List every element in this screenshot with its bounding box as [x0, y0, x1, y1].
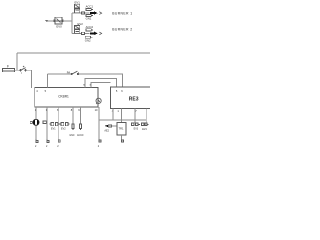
svg-text:EV4: EV4: [142, 128, 147, 131]
svg-text:GN2: GN2: [85, 38, 91, 42]
svg-text:CKBR1: CKBR1: [58, 95, 69, 99]
terminal tick row1: [81, 12, 84, 14]
svg-text:8: 8: [71, 108, 73, 112]
svg-text:9: 9: [78, 108, 80, 112]
svg-text:7: 7: [135, 109, 137, 113]
connector ACC2: [86, 25, 94, 31]
fuse F: [3, 65, 15, 72]
electrovalve EV1: [75, 1, 81, 13]
wire EV0 stub arrow: [45, 20, 54, 22]
svg-text:3: 3: [46, 108, 48, 112]
svg-text:EV0: EV0: [56, 25, 62, 29]
wire switch to drop: [26, 70, 31, 88]
wire bus vertical: [71, 13, 73, 33]
svg-text:BURNER 2: BURNER 2: [112, 28, 132, 32]
IC CKBR1: [35, 88, 98, 108]
wire drop pin8: [57, 107, 59, 139]
wire RE3 pin4 drop: [112, 109, 114, 120]
igniter arrow burner2: [90, 32, 102, 36]
connector ACC1: [86, 4, 94, 10]
wire line B: [85, 79, 117, 88]
wire fuse to node: [15, 69, 20, 71]
svg-text:10: 10: [95, 108, 98, 112]
wire rail top: [17, 52, 150, 54]
wire bottom bus: [99, 119, 146, 121]
wire burner2 row: [72, 32, 90, 34]
svg-text:GN1: GN1: [86, 17, 92, 21]
svg-text:ACC2: ACC2: [86, 25, 94, 29]
svg-text:2: 2: [35, 145, 37, 148]
svg-text:AE2: AE2: [104, 129, 109, 132]
terminal 3: [46, 140, 49, 149]
lamp neon at IC right: [96, 98, 101, 104]
svg-text:5: 5: [116, 89, 118, 93]
svg-text:1: 1: [35, 108, 37, 112]
connector GN1: [86, 15, 93, 21]
svg-text:8: 8: [57, 108, 59, 112]
wire EV0 to bus: [63, 20, 72, 22]
wire lamp drop pin1: [35, 107, 37, 139]
wire RE3 pin7 drop: [134, 109, 136, 123]
svg-text:ACC1: ACC1: [86, 4, 94, 8]
connector ACC0: [77, 124, 84, 137]
electrovalve EV0: [54, 17, 63, 28]
electrovalve EV2: [75, 22, 84, 33]
svg-text:5: 5: [45, 89, 47, 93]
svg-text:EV2: EV2: [61, 127, 66, 130]
wire drop pin3: [46, 107, 48, 139]
terminal 1: [35, 140, 38, 149]
wire RE3 pin1 drop to TR: [120, 109, 122, 123]
svg-text:TR1: TR1: [119, 127, 124, 131]
svg-text:EV3: EV3: [134, 128, 139, 131]
switch PA: [67, 70, 79, 75]
svg-text:2: 2: [57, 145, 59, 148]
connector EV3: [131, 123, 139, 131]
svg-text:1: 1: [117, 109, 119, 113]
igniter arrow burner1: [90, 11, 102, 15]
wire line A vertical: [47, 74, 49, 88]
connector GN2: [85, 36, 93, 42]
terminal TR1: [121, 140, 123, 142]
lamp SP: [30, 119, 46, 125]
terminal 10: [98, 140, 101, 149]
wire line A left: [48, 73, 72, 75]
connector right: [142, 123, 149, 131]
wire drop GN0: [72, 107, 74, 124]
connector EV1 out: [49, 122, 59, 130]
svg-text:F: F: [7, 65, 9, 69]
terminal 8: [57, 140, 60, 149]
connector EV2 out: [60, 122, 70, 130]
svg-text:EV1: EV1: [51, 127, 56, 130]
svg-text:GN0: GN0: [69, 134, 75, 137]
wire drop pin10 long: [98, 107, 100, 139]
connector arrow AE: [104, 125, 117, 133]
svg-text:4: 4: [36, 89, 38, 93]
wire drop ACC0: [79, 107, 81, 124]
wire line C: [91, 82, 111, 87]
relay RE3: [111, 87, 152, 109]
transformer TR1: [117, 122, 126, 134]
svg-text:BURNER 1: BURNER 1: [112, 12, 132, 16]
svg-text:2: 2: [98, 145, 100, 148]
wire burner1 row: [72, 12, 90, 14]
svg-text:2: 2: [46, 145, 48, 148]
wire TR1 bottom: [120, 135, 122, 141]
svg-text:RE3: RE3: [129, 96, 139, 102]
wire right drop: [145, 109, 147, 123]
wire line A right: [78, 74, 122, 87]
node junction at x17: [16, 53, 18, 70]
svg-text:6: 6: [121, 89, 123, 93]
terminal tick row2: [81, 32, 84, 34]
switch I: [20, 66, 26, 75]
svg-text:ACC0: ACC0: [77, 134, 84, 137]
svg-text:I: I: [22, 71, 23, 75]
svg-text:PA: PA: [67, 70, 71, 74]
connector GN0: [69, 124, 75, 137]
